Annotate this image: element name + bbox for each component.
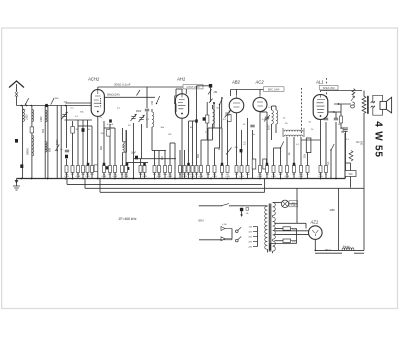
wire AB2 top [236,90,238,96]
resistor R9 [114,166,117,173]
dashed gang line [301,88,303,135]
resistor R30 [246,166,249,173]
wire return line 1 [67,183,262,185]
pilot lamp [281,200,288,207]
speaker cone [386,97,391,113]
wire bottom left rail [270,243,297,245]
wire x214 r [214,148,216,166]
label box lamp [289,201,298,207]
trimmer CT2 [62,114,66,116]
transformer T1 primary [265,206,268,249]
wire ACH1 grid left [66,102,92,104]
wire x219.5 [219,105,221,149]
svg-text:1M: 1M [161,157,164,160]
wire AZ1 plate feed [274,222,306,224]
resistor tall box x264.5 [263,159,267,169]
wire AZ1 bottom out [314,239,316,250]
wire ACH1 plate [97,87,99,90]
cap grid blob [109,119,112,122]
wave switch S2 [157,96,160,104]
voice coil arrow lower [371,106,375,108]
mains switch [221,204,229,206]
cap blob x16.5 [15,139,18,143]
tube ACH1 envelope [91,90,104,117]
cap x336 [334,117,338,119]
coil L3 tall [32,135,34,156]
selector taps [253,226,258,228]
wire x188.5 [188,121,190,166]
wire h150.5 [152,150,166,152]
svg-text:1000: 1000 [40,116,43,122]
wire column x47.9 [47,106,49,179]
wire x175 [174,143,176,179]
wire x230.5 [230,90,232,97]
svg-text:Feldsp.: Feldsp. [343,246,351,248]
wire x208 [207,128,209,166]
coil L11 [275,106,277,110]
dashed gang line 2 [326,78,328,104]
wire grid row [65,119,93,121]
resistor R39 [319,166,322,173]
trimmer CT5 [227,120,229,166]
antenna [9,81,24,88]
wire x273 lower [273,148,275,166]
tube AL1 electrodes [317,100,326,113]
svg-text:50kΩ(1W): 50kΩ(1W) [107,93,120,97]
junction dot 214 103 [213,102,215,104]
wire x345 col [344,133,346,179]
wire column x45.2 [44,106,46,179]
wire drop x147 [146,87,148,108]
wire x92 [91,126,93,166]
cap 8mF lower [283,239,291,242]
cap x252 [250,124,254,126]
svg-text:0,4A: 0,4A [291,204,296,207]
coil L9 [212,105,214,109]
wire x364 long [363,113,365,250]
curly hook x353 [351,102,355,108]
svg-text:1000: 1000 [26,114,29,120]
svg-text:500: 500 [349,173,354,176]
svg-text:1500: 1500 [136,110,142,113]
resistor R23 [200,166,203,173]
coil L2 [32,110,34,122]
switch lever b [209,99,213,103]
svg-text:CONT.100Ω: CONT.100Ω [187,86,200,89]
junction dots antenna row [21,105,23,107]
wire column x61.2 [60,106,62,179]
wire x83 [82,120,84,166]
voltage selector arm lower [236,239,239,242]
resistor R34 [279,166,282,173]
transformer T1 core [268,204,270,252]
coil L1 [23,110,25,122]
junction dot 338 104 [338,103,340,105]
resistor box x73 [71,127,75,134]
svg-text:AZ1: AZ1 [310,220,319,225]
speaker frame loop [373,95,383,115]
wire riser bus to line3 [264,179,266,192]
mains plug upper [221,227,225,231]
resistor R12 [140,159,142,166]
wire x326 [325,122,327,166]
tube AH1 envelope [175,94,188,118]
svg-text:350: 350 [361,140,364,145]
wire x104 [103,121,105,166]
wire x87.5 [87,120,89,166]
svg-text:500: 500 [42,128,45,133]
cap x241 blob [240,149,243,152]
svg-text:4/88: 4/88 [330,208,336,212]
arrow J [351,96,355,101]
resistor R28 [235,166,238,173]
resistor R20 [187,166,190,173]
wire AC2 bottom [259,112,261,166]
resistor R2 [71,166,74,173]
output transformer winding [363,91,365,97]
cap x326 [324,117,328,119]
wire x294 [293,137,295,166]
resistor R15 [158,151,160,166]
wire x72.5 [72,133,74,166]
cap bars x67 [65,149,69,151]
cap 2mF blob [135,156,138,160]
wire sec bottom [272,251,274,253]
tube AL1 envelope [313,95,328,120]
wire h158.7 [134,158,177,160]
tube AZ1 envelope [309,226,323,240]
resistor R14 [154,151,156,166]
svg-text:4Ω: 4Ω [356,140,359,144]
wire column x66.5 [66,106,68,149]
junction AL1 side [333,111,335,113]
wire h 128 [104,127,115,129]
svg-text:0,1: 0,1 [122,144,125,148]
resistor R17 [169,143,171,166]
switch S4 [281,142,284,149]
coil L4 [45,110,47,122]
resistor box AH1 left [174,96,178,104]
IF transformer horizontal coils [284,130,303,132]
svg-text:460 V: 460 V [325,249,332,252]
resistor R5 [86,166,89,173]
junction x72.5 [72,178,74,180]
svg-text:EIN: EIN [199,219,204,223]
cap blob x107 row [106,166,109,169]
wire column x31.9 [31,106,33,179]
svg-text:500: 500 [48,147,51,152]
resistor big box x308.5 [306,138,311,153]
resistor zigzag x353.5 [352,89,355,96]
coil L8 [151,109,153,112]
resistor R31 [259,166,262,173]
resistor Rg box [206,115,209,123]
ground [16,179,18,187]
trimmer CT3 [133,123,135,179]
wire x301 [300,137,302,166]
resistor R36 [293,166,296,173]
trimmer CT4 [141,124,143,159]
resistor R32 [266,166,269,173]
svg-text:4 W 55: 4 W 55 [373,121,384,157]
wire x241.5 [241,130,243,166]
resistor zigzag x351 [349,151,353,162]
speaker driver [380,101,386,109]
mains plug lower [221,237,225,241]
switch S3 [220,98,223,105]
resistor R6 [91,166,94,173]
svg-text:150: 150 [151,100,154,105]
cap 8mF upper [283,227,291,230]
wire sec top to lamp [273,202,282,204]
cap blobs on resistor row [87,163,90,166]
wire antenna input row [17,105,94,107]
cap x196 blob [195,119,198,122]
resistor R41 h [340,116,343,123]
svg-text:0,5: 0,5 [244,141,247,145]
resistor R29 [240,166,243,173]
svg-text:AC2: AC2 [255,80,265,85]
svg-text:AB2: AB2 [231,80,241,85]
svg-text:0,1: 0,1 [327,161,330,165]
svg-text:0,1A: 0,1A [222,223,227,226]
svg-text:SPEZ.L5W: SPEZ.L5W [323,87,336,90]
wire x126 [125,130,127,166]
wire ACH1 grid line [105,96,155,98]
field coil choke [342,248,354,251]
svg-text:AL1: AL1 [315,80,323,85]
coil L10 [271,106,273,110]
resistor R11 [125,166,128,173]
label box AC2 [264,87,285,92]
resistor R16 [164,151,166,166]
switch S1 [55,144,59,151]
label box AH1 [183,85,203,89]
resistor box x108.4 [107,129,111,136]
tube AB2 envelope [229,98,244,113]
wire x222 [221,128,223,166]
wire AB2 bottom [236,113,238,166]
coil L5 [45,142,47,153]
wire ACH1 cathode [97,117,99,179]
wire x110 [109,124,111,166]
wire AH1 plate riser [196,86,198,105]
tube AB2 electrodes [233,95,240,107]
cap C5 [145,108,149,110]
wire x66.5 low [66,159,68,166]
svg-text:AH1: AH1 [176,77,185,82]
RC network [343,129,347,131]
wire vertical x338.6 [338,188,340,250]
resistor R13 [144,163,146,166]
wire AH1 cathode [181,119,183,179]
wire mains top [199,205,220,207]
resistor box x31.9 [30,127,34,133]
switch top x52 [51,98,54,105]
svg-text:2mF: 2mF [131,152,136,155]
cap C-ant [45,104,48,107]
wire selector to winding [257,227,259,247]
svg-text:ACH1: ACH1 [87,77,99,82]
wire x196.5 [196,105,198,166]
resistor R33 [272,166,275,173]
fuse F1 [240,208,243,211]
cap blob x22.6 low [20,164,23,168]
wire x287 [286,137,288,166]
svg-text:5000: 5000 [56,139,59,145]
wire AC2 grid cap [265,116,269,118]
wire AH1 top [181,89,183,94]
coil L7 [122,128,124,142]
resistor R27 [226,166,229,173]
wire x78 [77,120,79,166]
wire column x22.6 [22,106,24,179]
resistor R40 [325,166,328,173]
wire x247.5 [247,118,249,166]
transformer T1 secondary [273,203,276,216]
wire return line 3 [100,191,265,193]
wire bottom rail [315,252,342,254]
antenna coupling connector [15,92,18,97]
wire h162.6 [126,162,148,164]
cap blob x128 row [127,167,130,170]
wire x307.5 [307,140,309,166]
resistor tall box x254 [252,159,256,169]
resistor R21 [191,166,194,173]
tube AH1 electrodes [178,94,185,109]
cap blob x83 [82,128,85,132]
resistor R25 [213,166,216,173]
svg-text:1007: 1007 [268,124,271,130]
wire h128b [208,127,222,129]
resistor R10 [121,166,124,173]
resistor R1 [65,166,68,173]
wire mains bottom [199,239,221,241]
resistor R22 [195,166,198,173]
resistor R7 [103,166,106,173]
cap top x212 blob [209,84,212,88]
cap blob x204 [203,117,206,120]
wire lamp right [289,203,297,205]
wire h121 [189,120,197,122]
resistor box x229 [228,115,231,122]
wire x201 [200,140,202,166]
resistor R37 [300,166,303,173]
resistor box cathode x95.9 [94,165,98,172]
svg-text:BRC 1/4W: BRC 1/4W [268,88,280,91]
switch lever a [208,90,212,95]
wire x280.5 lower [280,148,282,166]
wire x221.7 [221,97,223,128]
switch S5 [331,144,334,150]
svg-text:00048: 00048 [27,148,30,155]
tube AZ1 electrodes [312,230,318,236]
switch lever x137 [137,90,141,96]
wire x192.5 [192,121,194,166]
output transformer core [367,96,369,114]
wire x336 [335,122,337,179]
wire AZ1 heater [274,230,308,232]
wire h140 [301,139,321,141]
voltage selector arm upper [236,230,239,233]
wire AL1 top rail [320,91,322,93]
tube AC2 electrodes [257,95,263,106]
resistor R4 [82,166,85,173]
resistor R35 [286,166,289,173]
wire x252.5 [252,130,254,179]
label box AL1 [320,85,339,90]
resistor R38 [306,166,309,173]
wire h106 [272,105,277,107]
wire x115 [114,128,116,166]
cap blob x65.5 [65,155,68,159]
wire x147 lower [146,112,148,129]
svg-text:0,1mF: 0,1mF [107,124,114,126]
NTC block [345,171,356,177]
tube ACH1 electrodes [94,90,101,107]
wire main bus [17,178,346,180]
wire x331 [330,150,332,179]
resistor R26 [221,166,224,173]
resistor R24 [207,166,210,173]
resistor R18 [179,150,181,166]
voice coil arrow upper [371,101,375,103]
antenna trimmer switch [26,98,29,104]
svg-text:ZF=468 kHz: ZF=468 kHz [119,217,137,221]
parallel bracket L7 [123,130,127,152]
wire cap join [296,229,298,244]
wire x341 [340,104,342,116]
svg-text:300Ω 0,1mF: 300Ω 0,1mF [114,82,131,86]
resistor R19 [184,150,186,166]
resistor R3 [77,166,80,173]
tube AC2 envelope [253,98,267,112]
svg-text:WK: WK [55,98,59,100]
wire AL1 bottom [320,120,322,166]
resistor R8 [109,166,112,173]
junction dots on bus [20,178,22,180]
wire return line 2 [85,187,364,189]
wire column x57.2 [56,106,58,179]
